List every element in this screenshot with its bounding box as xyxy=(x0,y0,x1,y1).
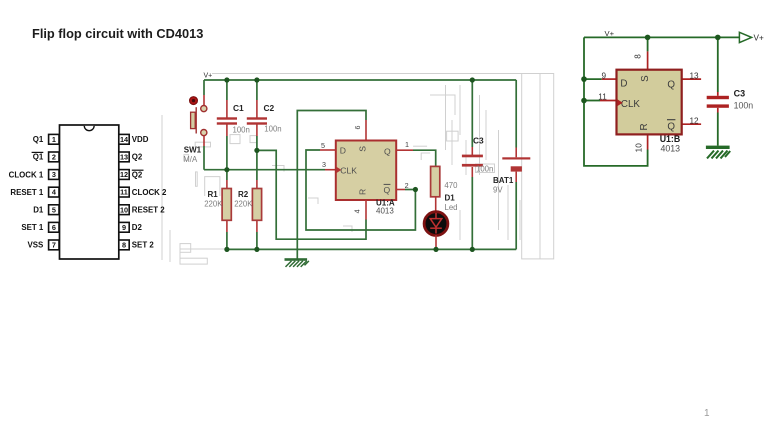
svg-text:R: R xyxy=(357,189,367,195)
svg-text:VDD: VDD xyxy=(132,135,149,144)
svg-text:2: 2 xyxy=(52,153,56,162)
wire CLK pin 11 xyxy=(584,100,617,102)
svg-text:CLK: CLK xyxy=(621,99,641,110)
resistor R3 470 xyxy=(431,166,440,196)
svg-text:8: 8 xyxy=(633,54,642,59)
svg-text:R1: R1 xyxy=(208,190,219,199)
wire Q1 output to resistor xyxy=(396,150,436,166)
wire C2 column xyxy=(256,80,258,249)
svg-text:SET 1: SET 1 xyxy=(21,223,44,232)
capacitor C2 xyxy=(247,117,267,124)
wire Q-bar pin stub xyxy=(396,189,415,191)
svg-text:100n: 100n xyxy=(476,164,493,173)
svg-text:V+: V+ xyxy=(204,73,213,80)
wire resistor to LED xyxy=(435,197,437,211)
pin 9 D2 xyxy=(119,222,143,232)
pin 14 VDD xyxy=(119,134,149,144)
flip-flop U1:B xyxy=(617,70,682,135)
pin 11 CLOCK 2 xyxy=(119,187,167,197)
svg-text:Q: Q xyxy=(384,185,391,195)
ground symbol middle xyxy=(285,249,309,267)
junction dots middle xyxy=(224,77,475,252)
svg-text:D: D xyxy=(340,146,346,156)
svg-text:RESET 1: RESET 1 xyxy=(10,188,43,197)
svg-text:3: 3 xyxy=(52,170,56,179)
svg-text:8: 8 xyxy=(122,241,126,250)
wire V+ rail right xyxy=(584,36,739,38)
svg-text:1: 1 xyxy=(405,140,409,149)
svg-text:D1: D1 xyxy=(445,193,456,202)
svg-text:220K: 220K xyxy=(234,200,253,209)
svg-text:R: R xyxy=(639,123,650,130)
wire R pin 10 xyxy=(647,134,649,149)
ghost background marks xyxy=(162,74,554,265)
switch SW1 xyxy=(190,97,207,136)
capacitor C3 middle xyxy=(462,155,483,167)
svg-text:V+: V+ xyxy=(754,34,764,43)
svg-text:470: 470 xyxy=(444,181,458,190)
wire C1 column xyxy=(226,80,228,249)
svg-text:12: 12 xyxy=(689,116,699,125)
svg-text:6: 6 xyxy=(353,126,362,130)
pin 12 Q2bar xyxy=(119,170,144,180)
svg-text:Q: Q xyxy=(667,121,675,132)
pin 1 Q1 xyxy=(33,134,59,144)
wire C3 column xyxy=(471,80,473,249)
svg-text:M/A: M/A xyxy=(183,155,198,164)
svg-text:5: 5 xyxy=(321,141,325,150)
svg-text:SET 2: SET 2 xyxy=(132,241,155,250)
wire CLK horizontal xyxy=(204,169,336,171)
op-amp style box: flip-flop U1:A xyxy=(336,141,396,201)
svg-text:D: D xyxy=(620,79,627,90)
svg-text:9V: 9V xyxy=(493,185,503,194)
pin 6 SET 1 xyxy=(21,222,59,232)
svg-text:CLK: CLK xyxy=(340,165,357,175)
wire D pin feedback loop xyxy=(306,150,415,230)
svg-text:CLOCK 1: CLOCK 1 xyxy=(9,170,44,179)
svg-text:4013: 4013 xyxy=(376,206,394,215)
svg-text:D1: D1 xyxy=(33,206,44,215)
svg-text:C3: C3 xyxy=(734,89,746,99)
pin 7 VSS xyxy=(28,240,59,250)
wire D pin 9 xyxy=(584,78,617,80)
svg-text:9: 9 xyxy=(122,223,126,232)
svg-text:1: 1 xyxy=(704,408,710,419)
svg-text:4: 4 xyxy=(353,209,362,213)
LED D1 xyxy=(424,212,448,236)
wire C3 right column xyxy=(717,37,719,145)
svg-text:Q1: Q1 xyxy=(33,135,44,144)
pin 13 Q2 xyxy=(119,152,143,162)
svg-text:Q2: Q2 xyxy=(132,170,143,179)
battery BAT1 xyxy=(502,157,530,171)
svg-text:6: 6 xyxy=(52,223,56,232)
svg-text:10: 10 xyxy=(634,143,643,153)
wire bottom ground rail xyxy=(227,248,516,250)
wire battery column xyxy=(515,80,517,249)
svg-text:3: 3 xyxy=(322,160,326,169)
svg-text:BAT1: BAT1 xyxy=(493,176,514,185)
svg-text:1: 1 xyxy=(52,135,56,144)
svg-text:5: 5 xyxy=(52,205,56,214)
svg-text:100n: 100n xyxy=(233,125,250,134)
svg-text:C1: C1 xyxy=(233,103,244,113)
svg-text:10: 10 xyxy=(120,205,128,214)
svg-text:Q: Q xyxy=(667,79,675,90)
power terminal V+ arrow xyxy=(739,32,764,42)
wire R pin stub xyxy=(365,200,367,220)
pin 10 RESET 2 xyxy=(119,205,165,215)
wire Q pin 13 xyxy=(682,78,701,80)
wire S pin to ground line xyxy=(297,111,366,250)
capacitor C3 right xyxy=(707,96,729,108)
svg-text:11: 11 xyxy=(120,188,128,197)
svg-text:RESET 2: RESET 2 xyxy=(132,206,165,215)
svg-text:D2: D2 xyxy=(132,223,143,232)
svg-text:9: 9 xyxy=(602,72,607,81)
svg-text:Q: Q xyxy=(384,146,391,156)
junction dots right xyxy=(581,35,720,104)
svg-text:11: 11 xyxy=(598,92,607,101)
svg-text:4013: 4013 xyxy=(661,143,681,153)
wire left loop U1:B xyxy=(584,37,648,166)
svg-text:Q1: Q1 xyxy=(33,153,44,162)
resistor R1 xyxy=(222,189,231,221)
svg-text:Q2: Q2 xyxy=(132,153,143,162)
svg-text:CLOCK 2: CLOCK 2 xyxy=(132,188,167,197)
capacitor C1 xyxy=(217,117,237,124)
svg-text:S: S xyxy=(357,146,367,152)
svg-text:C3: C3 xyxy=(473,136,484,146)
pin 8 SET 2 xyxy=(119,240,155,250)
svg-text:R2: R2 xyxy=(238,190,249,199)
wire S pin 8 xyxy=(647,37,649,69)
svg-text:VSS: VSS xyxy=(28,241,44,250)
resistor R2 xyxy=(252,189,261,221)
svg-text:SW1: SW1 xyxy=(184,146,202,155)
svg-text:100n: 100n xyxy=(264,125,281,134)
svg-text:S: S xyxy=(640,75,651,82)
wire SW1 bottom to CLK line xyxy=(203,136,205,170)
svg-text:13: 13 xyxy=(120,153,128,162)
svg-text:Led: Led xyxy=(445,203,458,212)
IC body CD4013 DIP-14 xyxy=(60,125,119,259)
wire left rail down to SW1 xyxy=(203,80,205,95)
pin 5 D1 xyxy=(33,205,59,215)
svg-text:7: 7 xyxy=(52,241,56,250)
ground symbol right xyxy=(706,146,730,159)
svg-text:13: 13 xyxy=(689,71,699,80)
pin 3 CLOCK 1 xyxy=(9,170,59,180)
svg-text:14: 14 xyxy=(120,135,129,144)
wire Q-bar pin 12 xyxy=(682,123,701,125)
wire reset loop from C2/R2 node to R pin xyxy=(257,150,366,239)
pin 2 Q1bar xyxy=(32,152,59,162)
pin 4 RESET 1 xyxy=(10,187,59,197)
svg-text:220K: 220K xyxy=(204,200,223,209)
svg-text:12: 12 xyxy=(120,170,128,179)
svg-text:C2: C2 xyxy=(264,103,275,113)
wire top V+ rail xyxy=(204,79,516,81)
svg-text:100n: 100n xyxy=(734,100,754,110)
wire LED to ground rail xyxy=(435,235,437,249)
svg-text:Flip flop circuit with CD4013: Flip flop circuit with CD4013 xyxy=(32,26,203,41)
